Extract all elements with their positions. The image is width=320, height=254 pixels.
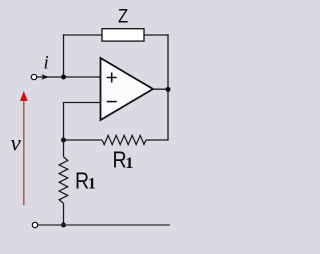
- wire op-amp output: [153, 88, 168, 90]
- resistor R1 (vertical): [59, 157, 68, 204]
- node feedback junction: [61, 138, 66, 143]
- wire - input drop to feedback node: [63, 103, 65, 141]
- svg-text:Z: Z: [118, 4, 128, 27]
- svg-text:1: 1: [125, 155, 133, 172]
- terminal top input: [31, 74, 36, 79]
- wire Z box to right rail: [144, 34, 169, 36]
- wire op-amp - input: [63, 102, 101, 104]
- wire bottom rail: [38, 224, 170, 226]
- wire top horizontal to Z box: [63, 34, 102, 36]
- svg-text:1: 1: [88, 176, 96, 193]
- voltage arrow v: [23, 100, 25, 206]
- wire vertical R1 bottom lead: [63, 203, 65, 225]
- op-amp - symbol: [107, 101, 117, 103]
- current arrow i: [42, 74, 49, 80]
- op-amp U1: [101, 58, 154, 120]
- svg-text:v: v: [11, 130, 22, 155]
- resistor R1 feedback (horizontal): [102, 135, 146, 144]
- wire left rail up from + node: [63, 34, 65, 77]
- impedance Z box: [102, 29, 144, 41]
- svg-text:i: i: [44, 53, 49, 74]
- wire top-left terminal to op-amp + input: [37, 76, 101, 78]
- wire feedback left lead: [64, 139, 103, 141]
- wire feedback right lead: [146, 139, 168, 141]
- wire vertical R1 top lead: [63, 140, 65, 157]
- op-amp + symbol: [107, 73, 117, 83]
- wire right rail down: [167, 34, 169, 140]
- node output junction: [166, 87, 171, 92]
- node bottom junction: [61, 223, 66, 228]
- terminal bottom input: [32, 222, 37, 227]
- node + input junction: [61, 75, 66, 80]
